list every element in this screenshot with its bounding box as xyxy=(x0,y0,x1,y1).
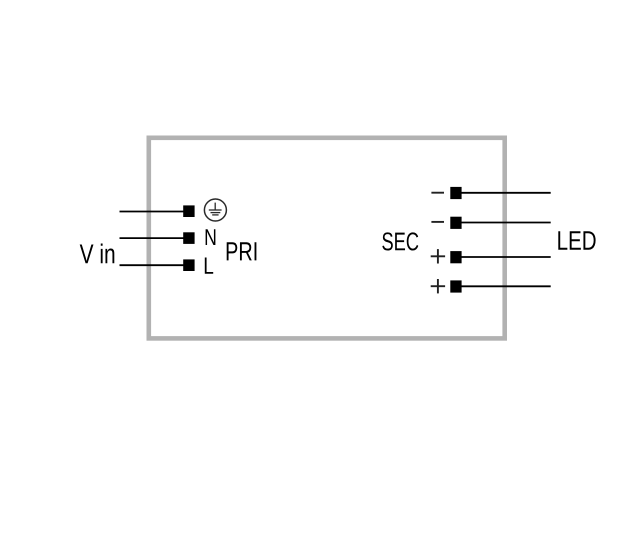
terminal LED+1 xyxy=(450,251,461,263)
terminal LED-2 xyxy=(450,217,461,229)
label N xyxy=(206,229,216,245)
polarity plus 2 xyxy=(431,279,445,293)
wire LED+1 xyxy=(461,256,551,258)
terminal L xyxy=(183,259,194,271)
wire LED-1 xyxy=(461,192,551,194)
polarity minus 1 xyxy=(431,192,444,194)
wire L xyxy=(120,264,185,266)
terminal PE xyxy=(183,205,194,217)
polarity plus 1 xyxy=(431,249,445,263)
wire LED+2 xyxy=(461,285,551,287)
label PRI xyxy=(227,242,257,260)
label L xyxy=(205,257,213,273)
terminal N xyxy=(183,232,194,244)
wire LED-2 xyxy=(461,222,551,224)
wire N xyxy=(120,237,185,239)
label SEC xyxy=(382,232,418,250)
protective earth symbol xyxy=(204,199,226,221)
wire PE (top input) xyxy=(120,211,185,213)
enclosure outline (driver body) xyxy=(149,138,505,339)
polarity minus 2 xyxy=(431,221,444,223)
label LED xyxy=(558,231,595,250)
terminal LED+2 xyxy=(450,280,461,292)
label V in xyxy=(80,243,115,263)
terminal LED-1 xyxy=(450,187,461,199)
